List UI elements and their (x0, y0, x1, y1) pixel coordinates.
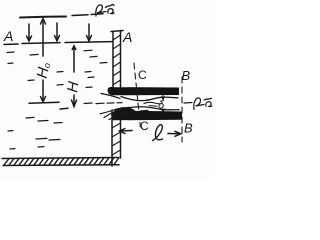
dashed continuation of top level toward p_at label (72, 14, 103, 16)
converging entrance streamlines (100, 94, 148, 120)
svg-text:C: C (138, 68, 147, 82)
label p_at (top) (96, 4, 114, 16)
nozzle length dimension l: left arrow (120, 129, 133, 134)
lower tank wall (hatched) (112, 110, 121, 166)
bottom tick of H0 at nozzle axis level (29, 102, 59, 103)
pressure arrow on surface (right) (87, 24, 92, 41)
delta gap dimension with arrows (162, 96, 165, 112)
mid flow squiggle (144, 102, 161, 104)
label l (script ell) (153, 125, 163, 141)
svg-text:δ: δ (158, 100, 165, 112)
pressure arrow on surface (left) (27, 24, 32, 41)
section line C-C (dashed vertical) (134, 63, 140, 127)
top reference line (initial level) (20, 17, 66, 18)
jet boundary (top, vena contracta) (121, 97, 178, 101)
tank bottom wall (hatched band) (2, 158, 119, 166)
upper tank wall (hatched) (111, 31, 123, 89)
label p_at (right of exit) with leading dash (184, 98, 212, 110)
jet boundary (bottom, vena contracta) (126, 107, 179, 110)
water surface line (4, 42, 112, 45)
water level dashes in tank (7, 50, 107, 149)
section line B-B (dashed vertical) (181, 77, 183, 142)
dimension H0 vertical line with arrowheads (29, 19, 59, 104)
svg-text:B: B (184, 121, 193, 136)
svg-text:A: A (3, 28, 13, 44)
nozzle bottom wall (solid bar with curved entrance lip) (113, 108, 182, 120)
svg-text:C: C (140, 119, 149, 133)
svg-text:A: A (122, 29, 132, 45)
dimension H vertical line with arrowheads (60, 46, 77, 109)
nozzle top wall (solid bar) (108, 87, 179, 94)
pressure arrow on surface (middle) (55, 23, 60, 41)
nozzle length dimension l: right arrow (168, 131, 181, 136)
svg-text:H: H (64, 80, 82, 93)
svg-text:Ho: Ho (34, 61, 53, 80)
axis dash-dot line at nozzle entrance (96, 103, 122, 104)
svg-text:B: B (182, 68, 191, 83)
